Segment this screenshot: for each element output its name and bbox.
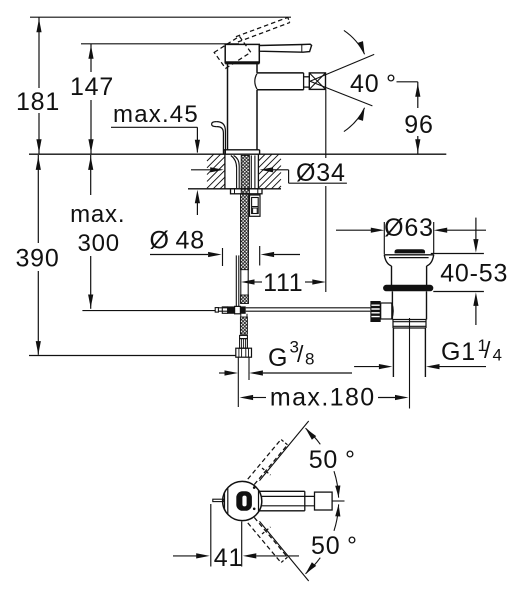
svg-text:40-53: 40-53 bbox=[440, 260, 508, 288]
svg-text:°: ° bbox=[381, 70, 396, 98]
svg-text:max.180: max.180 bbox=[270, 384, 376, 412]
svg-text:max.45: max.45 bbox=[113, 101, 199, 128]
svg-text:G1: G1 bbox=[441, 338, 476, 366]
svg-text:4: 4 bbox=[493, 346, 503, 365]
svg-text:300: 300 bbox=[77, 230, 119, 257]
svg-text:111: 111 bbox=[263, 269, 303, 297]
svg-text:max.: max. bbox=[70, 201, 125, 228]
svg-text:390: 390 bbox=[15, 245, 59, 273]
svg-text:/: / bbox=[484, 337, 491, 363]
svg-text:147: 147 bbox=[70, 73, 114, 101]
svg-text:Ø 48: Ø 48 bbox=[150, 227, 205, 255]
svg-text:50: 50 bbox=[309, 446, 338, 474]
svg-text:50: 50 bbox=[311, 532, 340, 560]
svg-text:181: 181 bbox=[16, 88, 60, 116]
svg-text:°: ° bbox=[340, 446, 355, 474]
svg-text:96: 96 bbox=[404, 111, 433, 139]
svg-text:G: G bbox=[268, 344, 288, 372]
svg-text:41: 41 bbox=[214, 544, 243, 572]
svg-text:°: ° bbox=[342, 532, 357, 560]
svg-text:/: / bbox=[297, 341, 304, 367]
svg-text:Ø63: Ø63 bbox=[384, 214, 434, 242]
svg-text:40: 40 bbox=[350, 70, 379, 98]
svg-text:Ø34: Ø34 bbox=[296, 159, 346, 187]
svg-text:8: 8 bbox=[305, 350, 315, 369]
